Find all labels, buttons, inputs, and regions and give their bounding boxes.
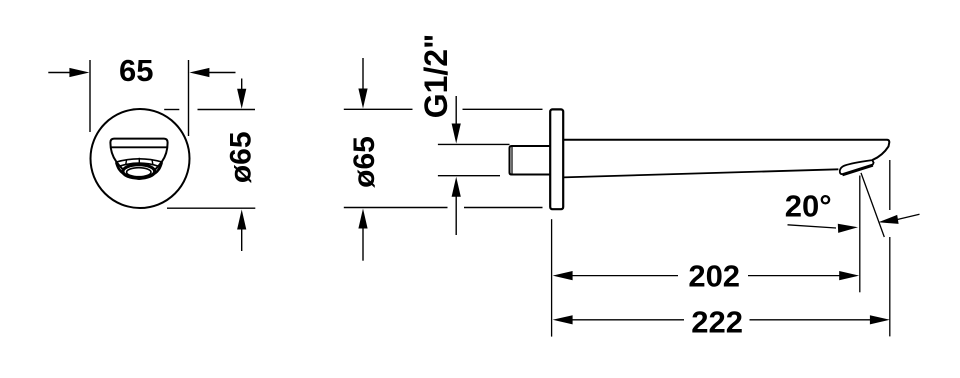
dim 202 left arrowhead [553,271,573,280]
dim G1/2 top extension line [438,143,510,145]
spout front-view collar upper arc [116,159,162,162]
dim 202 right arrowhead [839,271,859,280]
dim 65 left extension line [89,60,91,132]
svg-text:202: 202 [688,258,740,293]
spout front-view right cheek arc [155,162,162,173]
svg-text:65: 65 [119,53,153,88]
inlet pipe (G1/2 thread) [510,146,551,175]
dim 65 right arrow [189,68,235,77]
dim G1/2 down arrow [452,96,461,144]
flange extension line [551,219,553,336]
dim 222 line right segment [750,319,872,321]
outlet aerator face lower line [843,166,873,176]
dim phi65 front bottom extension line [167,207,255,209]
dim 222 extension line lower segment [889,237,891,336]
dim 222 extension line [889,160,891,210]
spout front-view collar tick middle [138,158,140,164]
spout front-view left cheek arc [116,162,123,173]
dim 65 right extension line [188,60,190,136]
dim phi65 side bottom extension line seg2 [464,207,543,209]
spout front-view collar tick left [126,160,127,166]
spout front-view collar tick right [152,160,153,166]
svg-text:ø65: ø65 [348,136,381,188]
dim phi65 side top extension line seg2 [463,108,543,110]
wall plate circle (front view) [91,109,190,208]
spout body top and right outline [563,140,889,160]
svg-text:ø65: ø65 [224,131,257,183]
dim 222 left arrowhead [553,315,573,324]
svg-text:G1/2": G1/2" [418,34,454,119]
wall flange (side view) [550,109,563,209]
dim phi65 side bottom arrow [358,209,367,261]
dim phi65 side bottom extension line seg1 [344,207,448,209]
dim 202 line left segment [571,275,678,277]
outlet nozzle outline [840,160,874,174]
aerator outer ellipse (bold) [123,165,155,178]
20 degree left arrow [788,224,859,233]
dim phi65 front top extension line (short dash) [164,109,179,111]
dim 65 left arrow [48,68,89,77]
dim G1/2 bottom extension line [438,175,500,177]
dim phi65 side top arrow [358,58,367,109]
dim phi65 front top extension line [198,109,256,111]
dim 202 extension line [859,176,861,293]
spout body bottom edge [563,169,838,177]
20 degree slant line [861,173,884,237]
svg-text:20°: 20° [785,188,832,223]
spout front-view top band line [111,146,168,148]
dim phi65 side top extension line seg1 [344,108,413,110]
dim phi65 front bottom arrow [237,210,246,252]
dim phi65 front top arrow [237,79,246,109]
dim 222 line left segment [571,319,684,321]
dim 202 line right segment [748,275,842,277]
aerator inner ellipse [127,168,151,177]
20 degree right arrow [878,214,919,224]
dim G1/2 up arrow [452,177,461,235]
spout front-view silhouette [110,139,167,179]
dim 222 right arrowhead [870,315,890,324]
svg-text:222: 222 [691,304,743,339]
spout front-view collar lower arc [120,163,159,166]
inlet pipe thread relief line [511,146,513,174]
